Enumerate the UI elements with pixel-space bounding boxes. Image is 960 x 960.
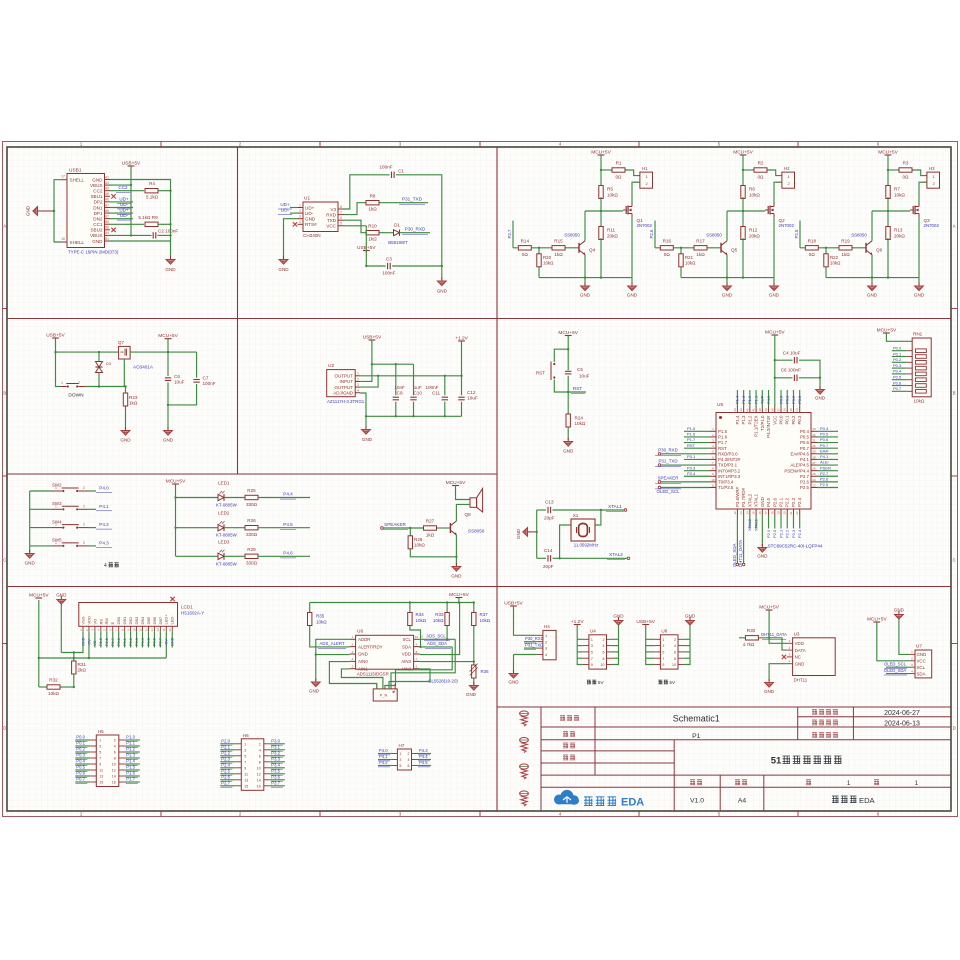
ground GND (U1) — [279, 256, 288, 264]
svg-text:P3.3: P3.3 — [271, 757, 280, 762]
resistor R12 20k — [741, 227, 745, 240]
IC U1 CH340N — [303, 202, 338, 232]
photoresistor R36 GL5528 — [472, 665, 476, 678]
svg-text:7: 7 — [244, 760, 246, 764]
wire U4 right rail — [613, 625, 619, 665]
svg-text:VCC: VCC — [326, 224, 336, 229]
svg-text:P1.4: P1.4 — [735, 415, 740, 425]
svg-text:1: 1 — [244, 742, 246, 746]
net P0.0 (H5) — [75, 739, 90, 741]
svg-text:DHT11_DATA: DHT11_DATA — [761, 632, 787, 637]
svg-text:DB6: DB6 — [152, 616, 157, 625]
wires U5 left pins — [684, 430, 710, 432]
svg-text:A4: A4 — [738, 798, 747, 805]
svg-text:1kΩ: 1kΩ — [841, 252, 850, 257]
svg-text:P1.2: P1.2 — [747, 395, 752, 404]
resistor R13 20k — [886, 227, 890, 240]
title block labels — [560, 715, 579, 720]
svg-text:CC2: CC2 — [118, 185, 128, 190]
svg-text:KT-0805W: KT-0805W — [216, 561, 238, 566]
wire USB+5V to INPUT — [371, 340, 373, 364]
svg-text:C: C — [3, 558, 6, 563]
wire source to ground rail — [631, 217, 633, 278]
svg-text:C5: C5 — [577, 367, 583, 372]
net label P2.5 — [799, 221, 801, 248]
svg-text:4: 4 — [674, 644, 676, 648]
svg-text:R19: R19 — [841, 238, 850, 243]
svg-text:0Ω: 0Ω — [664, 252, 671, 257]
resistor R14 0R — [518, 246, 531, 250]
svg-text:3: 3 — [591, 644, 593, 648]
svg-text:LED3: LED3 — [218, 539, 230, 544]
ground GND (R24) — [564, 438, 573, 446]
capacitor C10 1uF — [413, 364, 415, 395]
net P0.5 (H5) — [75, 769, 90, 771]
wire reset stem — [567, 336, 569, 371]
svg-text:P0.2: P0.2 — [791, 415, 796, 425]
capacitor C12 10uF — [461, 376, 463, 396]
svg-text:P0.4: P0.4 — [76, 759, 85, 764]
svg-text:2N7002: 2N7002 — [924, 223, 940, 228]
svg-text:SW4: SW4 — [52, 519, 62, 524]
svg-text:D1: D1 — [394, 222, 400, 227]
wire ADDR to ground — [316, 639, 350, 680]
resistor R6 10k — [742, 170, 744, 187]
svg-text:EA#/: EA#/ — [820, 448, 830, 453]
svg-text:DB5: DB5 — [146, 616, 151, 625]
no-connect SBU1 — [111, 194, 115, 198]
svg-text:R29: R29 — [247, 547, 256, 552]
svg-text:1: 1 — [55, 523, 57, 527]
svg-text:28: 28 — [812, 455, 816, 459]
svg-text:SDA: SDA — [402, 644, 411, 649]
svg-text:UD+: UD+ — [119, 196, 129, 201]
net P1.1 (H5) — [125, 745, 140, 747]
net ADS_SDA — [420, 646, 453, 648]
svg-text:R16: R16 — [663, 238, 672, 243]
wire emitter to ground rail — [726, 255, 728, 278]
svg-text:21: 21 — [789, 511, 793, 515]
IC U5 STC89C52RC LQFP44 — [716, 413, 811, 510]
svg-text:10kΩ: 10kΩ — [914, 399, 925, 404]
svg-text:8: 8 — [259, 760, 261, 764]
svg-text:Q8: Q8 — [465, 512, 472, 517]
wire VBUS pin — [110, 184, 131, 186]
svg-text:RST: RST — [718, 446, 727, 451]
svg-text:GND: GND — [867, 293, 878, 298]
resistor R32 10k — [39, 686, 47, 688]
wire GND pin B1 to rail — [110, 240, 171, 242]
svg-text:P0.3: P0.3 — [797, 395, 802, 404]
resistor R8 1k / net P31_TXD — [344, 203, 366, 215]
wire source to ground rail — [918, 217, 920, 278]
svg-text:3: 3 — [299, 215, 301, 219]
svg-text:3: 3 — [545, 647, 547, 651]
svg-text:14: 14 — [257, 778, 261, 782]
svg-text:8: 8 — [340, 205, 342, 209]
resistor R37 10k — [473, 603, 475, 613]
transistor Q3 2N7002 NMOS — [910, 209, 913, 211]
svg-text:P1.5: P1.5 — [718, 429, 728, 434]
ground GND (buttons) — [29, 551, 31, 552]
svg-text:+5V: +5V — [87, 639, 91, 646]
net P4.4 — [258, 497, 310, 499]
svg-text:23: 23 — [812, 483, 816, 487]
resistor R33 10k — [446, 603, 448, 613]
svg-text:2024-06-27: 2024-06-27 — [884, 710, 920, 717]
ground GND (C3) — [441, 266, 443, 280]
wire right GND rail — [170, 191, 172, 256]
svg-text:P2.4: P2.4 — [797, 529, 802, 538]
svg-text:T1/P3.5: T1/P3.5 — [718, 485, 734, 490]
wire OUTPUT2 tie — [360, 376, 378, 387]
svg-text:DB1: DB1 — [122, 616, 127, 625]
svg-text:2: 2 — [83, 523, 85, 527]
net ADS_SCL — [420, 638, 456, 640]
wire U8 right rail — [684, 625, 690, 665]
title block grid — [540, 707, 542, 811]
net P4.0 (H7) — [378, 753, 391, 755]
header H3 2pin — [927, 172, 940, 188]
svg-text:SCL: SCL — [917, 665, 926, 670]
wire U1 GND — [284, 219, 298, 259]
svg-text:P3.1: P3.1 — [271, 745, 280, 750]
svg-text:C1: C1 — [398, 169, 404, 174]
resistor R19 1k — [839, 246, 852, 250]
svg-text:5: 5 — [591, 651, 593, 655]
svg-text:SW2: SW2 — [52, 483, 62, 488]
resistor R35 10k — [309, 603, 311, 613]
svg-text:UD+: UD+ — [280, 202, 290, 207]
svg-text:P4.3/INT2#: P4.3/INT2# — [718, 457, 741, 462]
capacitor C5 10uF — [565, 370, 571, 372]
svg-text:P2.5: P2.5 — [105, 638, 109, 646]
svg-text:R33: R33 — [435, 612, 444, 617]
svg-text:P2.7: P2.7 — [800, 474, 810, 479]
svg-text:SBU1: SBU1 — [90, 194, 102, 199]
svg-text:11: 11 — [99, 769, 103, 773]
svg-text:R3: R3 — [903, 161, 909, 166]
svg-text:R6: R6 — [749, 187, 755, 192]
svg-text:UD-: UD- — [120, 213, 129, 218]
svg-text:CC1: CC1 — [93, 222, 103, 227]
wire U4 left rail — [577, 625, 583, 665]
svg-text:X1: X1 — [573, 513, 579, 518]
section divider lines — [7, 318, 951, 320]
net P2.4 (H6) — [220, 767, 235, 769]
svg-text:9: 9 — [244, 766, 246, 770]
svg-text:330Ω: 330Ω — [246, 502, 258, 507]
svg-text:VO: VO — [92, 619, 97, 625]
header H6 16pin — [241, 739, 263, 791]
svg-text:42: 42 — [745, 408, 749, 412]
svg-text:10kΩ: 10kΩ — [894, 192, 905, 197]
svg-text:OLED_SCL: OLED_SCL — [884, 661, 907, 666]
svg-text:R2: R2 — [758, 161, 764, 166]
svg-text:P4.6: P4.6 — [283, 551, 293, 556]
svg-text:26: 26 — [812, 467, 816, 471]
svg-text:RST: RST — [687, 443, 696, 448]
svg-text:DHT11: DHT11 — [794, 678, 808, 683]
svg-text:R26: R26 — [247, 518, 256, 523]
svg-text:A4: A4 — [105, 181, 109, 185]
transistor Q8 SS8050 — [449, 523, 451, 533]
net P4.2 — [89, 527, 97, 529]
svg-text:24: 24 — [812, 478, 816, 482]
svg-text:V3: V3 — [330, 207, 336, 212]
svg-text:13: 13 — [244, 778, 248, 782]
svg-text:C13: C13 — [545, 500, 554, 505]
svg-text:P2.0: P2.0 — [772, 497, 777, 507]
wire U8 left rail — [646, 625, 655, 665]
net P31_TXD (H4) — [524, 647, 537, 649]
svg-text:P0.1: P0.1 — [76, 741, 85, 746]
svg-text:2: 2 — [114, 739, 116, 743]
svg-text:P0.2: P0.2 — [791, 395, 796, 404]
svg-text:4: 4 — [114, 745, 116, 749]
resistor R18 0R — [805, 246, 818, 250]
svg-text:5: 5 — [244, 754, 246, 758]
svg-text:P1.2: P1.2 — [747, 415, 752, 425]
svg-text:Q4: Q4 — [589, 247, 596, 252]
svg-text:P2.3: P2.3 — [791, 497, 796, 507]
svg-text:P4.4: P4.4 — [283, 492, 293, 497]
capacitor C11 100nF — [444, 376, 446, 396]
svg-text:P1.7: P1.7 — [687, 437, 696, 442]
net P4.3 — [89, 545, 97, 547]
net P2.0 (H6) — [220, 743, 235, 745]
transistor Q4 SS8050 NPN — [578, 243, 580, 253]
svg-text:SHELL: SHELL — [70, 240, 85, 245]
wire collector to gate node — [871, 211, 873, 241]
svg-text:6: 6 — [114, 751, 116, 755]
svg-text:GND: GND — [362, 437, 373, 442]
svg-text:20: 20 — [783, 511, 787, 515]
svg-text:8: 8 — [603, 657, 605, 661]
svg-text:P31_TXD: P31_TXD — [402, 197, 423, 202]
label expansion 5V (U4) — [587, 680, 596, 684]
resistor R7 10k — [887, 170, 889, 187]
svg-text:29: 29 — [812, 450, 816, 454]
resistor R15 1k — [552, 246, 565, 250]
svg-text:SW5: SW5 — [52, 538, 62, 543]
svg-text:5: 5 — [662, 651, 664, 655]
wire emitter to ground rail — [584, 255, 586, 278]
svg-text:2: 2 — [357, 377, 359, 381]
capacitor C1 100nF top — [344, 175, 390, 209]
svg-text:D: D — [3, 726, 6, 731]
svg-text:15: 15 — [752, 511, 756, 515]
crystal X1 11.0592MHz — [595, 510, 601, 525]
svg-text:INPUT: INPUT — [340, 379, 354, 384]
svg-text:10kΩ: 10kΩ — [480, 618, 491, 623]
wire RN1 pin 6 net P0.5 — [892, 379, 907, 381]
svg-text:R20: R20 — [543, 255, 552, 260]
svg-text:P2.6: P2.6 — [820, 477, 829, 482]
svg-text:P2.7: P2.7 — [820, 471, 829, 476]
svg-text:10kΩ: 10kΩ — [830, 261, 841, 266]
svg-text:LED1: LED1 — [218, 481, 230, 486]
svg-text:0Ω: 0Ω — [522, 252, 529, 257]
svg-text:R18: R18 — [808, 238, 817, 243]
ground GND (DHT11) — [765, 679, 774, 687]
svg-text:10: 10 — [112, 763, 116, 767]
svg-text:GND: GND — [722, 293, 733, 298]
net UD+ (DP2) — [110, 201, 133, 203]
net P4.5 — [258, 527, 310, 529]
svg-text:R15: R15 — [554, 238, 563, 243]
svg-text:P2.4: P2.4 — [221, 763, 230, 768]
svg-text:1: 1 — [847, 780, 851, 787]
screw icons — [520, 711, 529, 716]
svg-text:GND: GND — [516, 528, 521, 539]
transistor Q2 2N7002 NMOS — [765, 209, 768, 211]
svg-text:C7: C7 — [203, 376, 209, 381]
resistor R22 10k — [825, 248, 827, 254]
svg-text:P1.7: P1.7 — [126, 777, 135, 782]
svg-text:4: 4 — [104, 563, 107, 569]
svg-text:4: 4 — [603, 644, 605, 648]
svg-text:7: 7 — [340, 210, 342, 214]
svg-text:AIN0: AIN0 — [358, 659, 368, 664]
no-connect SBU2 — [111, 228, 115, 232]
resistor R34 10k — [409, 603, 411, 613]
svg-text:1: 1 — [662, 638, 664, 642]
wire VDD to supply — [420, 603, 460, 655]
svg-text:KT-0805W: KT-0805W — [216, 503, 238, 508]
svg-text:P4.2: P4.2 — [766, 395, 771, 404]
svg-text:P0.1: P0.1 — [123, 638, 127, 646]
svg-text:13: 13 — [739, 511, 743, 515]
net P0.2 (H5) — [75, 751, 90, 753]
resistor R1 0R — [601, 169, 612, 171]
svg-text:A7: A7 — [105, 203, 109, 207]
svg-text:P2.3: P2.3 — [221, 757, 230, 762]
svg-text:9: 9 — [591, 663, 593, 667]
resistor R20 10k — [538, 248, 540, 254]
wire RN1 pin 8 net P0.7 — [892, 390, 907, 392]
svg-text:5.1kΩ R9: 5.1kΩ R9 — [138, 215, 158, 220]
svg-text:11: 11 — [244, 772, 248, 776]
net P4.1 (H7) — [378, 759, 391, 761]
svg-text:P2.6: P2.6 — [221, 775, 230, 780]
svg-text:R36: R36 — [481, 669, 490, 674]
svg-text:2: 2 — [83, 541, 85, 545]
svg-text:P0.6: P0.6 — [76, 771, 85, 776]
wire RN1 pin 3 net P0.2 — [892, 361, 907, 363]
svg-text:INT1#/P3.3: INT1#/P3.3 — [718, 474, 741, 479]
svg-text:B8: B8 — [105, 226, 109, 230]
net P4.1 — [89, 508, 97, 510]
net P2.6 (H6) — [220, 779, 235, 781]
svg-text:CH340N: CH340N — [303, 233, 321, 238]
svg-text:A1: A1 — [105, 175, 109, 179]
svg-text:AO3401A: AO3401A — [133, 365, 154, 370]
svg-text:11.0592MHz: 11.0592MHz — [574, 543, 599, 548]
svg-text:P4.2: P4.2 — [99, 522, 109, 527]
svg-text:2: 2 — [545, 640, 547, 644]
svg-text:P1.6: P1.6 — [126, 771, 135, 776]
svg-text:15: 15 — [244, 784, 248, 788]
svg-text:C3: C3 — [386, 256, 392, 261]
net P3.7 (H6) — [270, 785, 285, 787]
svg-text:GND: GND — [358, 652, 368, 657]
svg-text:GND: GND — [508, 680, 519, 685]
svg-text:10kΩ: 10kΩ — [749, 192, 760, 197]
svg-text:15: 15 — [99, 781, 103, 785]
net P4.2 (H7) — [378, 765, 391, 767]
svg-text:C11: C11 — [432, 391, 441, 396]
svg-text:0Ω: 0Ω — [809, 252, 816, 257]
svg-text:NC: NC — [795, 655, 801, 660]
svg-text:SHELL: SHELL — [70, 177, 85, 182]
svg-text:P2.1: P2.1 — [779, 497, 784, 507]
svg-text:R23: R23 — [129, 395, 138, 400]
wire DHT11 VCC — [769, 610, 787, 643]
svg-text:35: 35 — [789, 408, 793, 412]
svg-text:VDD: VDD — [402, 652, 411, 657]
net P1.2 (H5) — [125, 751, 140, 753]
svg-text:GND: GND — [25, 561, 36, 566]
svg-text:ADS_SCL: ADS_SCL — [426, 633, 446, 638]
svg-text:P1.0: P1.0 — [126, 735, 135, 740]
net DHT11_DATA (U5) — [743, 515, 745, 563]
svg-text:P4.1: P4.1 — [379, 754, 388, 759]
svg-text:P0.0: P0.0 — [76, 735, 85, 740]
svg-text:10uF: 10uF — [579, 373, 590, 378]
net P3.6 (H6) — [270, 779, 285, 781]
svg-text:37: 37 — [777, 408, 781, 412]
svg-text:C14: C14 — [544, 548, 553, 553]
svg-text:H1: H1 — [642, 166, 648, 171]
svg-text:P3.7/RD#: P3.7/RD# — [741, 487, 746, 507]
svg-text:P0.1: P0.1 — [785, 415, 790, 425]
svg-text:H2: H2 — [784, 166, 790, 171]
wire AIN0 to header — [329, 662, 376, 689]
net P2.1 (H6) — [220, 749, 235, 751]
capacitor C6 10uF — [167, 352, 169, 376]
svg-text:P2.2: P2.2 — [785, 497, 790, 507]
wire AIN2 to header — [389, 669, 430, 689]
svg-text:ALE/P4.5: ALE/P4.5 — [790, 463, 809, 468]
svg-text:P2.0: P2.0 — [766, 529, 771, 538]
svg-text:13: 13 — [150, 628, 154, 632]
net UD+ (DP1) — [110, 212, 133, 214]
svg-text:RST: RST — [536, 371, 545, 376]
svg-text:P0.6: P0.6 — [800, 440, 810, 445]
svg-text:GND: GND — [165, 267, 176, 272]
net P3.3 (H6) — [270, 761, 285, 763]
svg-text:P2.6: P2.6 — [800, 480, 810, 485]
wire header H3 pin2 to drain — [919, 182, 927, 203]
svg-text:B5: B5 — [105, 220, 109, 224]
net UD- (DN1) — [110, 207, 133, 209]
IC U3 DHT11 — [793, 638, 836, 676]
svg-text:VO: VO — [93, 640, 97, 646]
svg-text:VDD: VDD — [795, 641, 804, 646]
svg-text:P1.3: P1.3 — [741, 415, 746, 425]
svg-text:P0.4: P0.4 — [820, 426, 829, 431]
svg-text:P2.4: P2.4 — [797, 497, 802, 507]
svg-text:P0.7: P0.7 — [800, 446, 810, 451]
net P3.5 (H6) — [270, 773, 285, 775]
svg-text:P4.5: P4.5 — [419, 760, 428, 765]
ground GND (USB-C) — [166, 256, 175, 264]
svg-text:LED+: LED+ — [164, 614, 169, 625]
capacitor C9 10nF — [395, 364, 397, 395]
capacitor C4 10uF — [775, 359, 793, 361]
svg-text:XTAL2: XTAL2 — [609, 552, 623, 557]
